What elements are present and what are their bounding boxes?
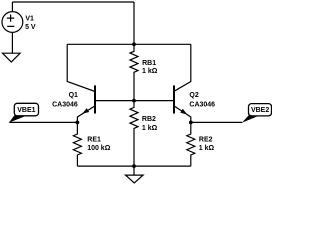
wire Q2 emitter to VBE2 (191, 121, 243, 123)
resistor RE2 (187, 122, 195, 166)
svg-text:RE2: RE2 (199, 136, 213, 143)
wire VBE1 to Q1 emitter (9, 121, 77, 123)
svg-text:5 V: 5 V (25, 24, 36, 31)
node base junction (132, 99, 136, 103)
ground under V1 (3, 53, 21, 62)
node ground junction (132, 164, 136, 168)
wire down into top bus (133, 2, 135, 44)
probe VBE1 (9, 103, 39, 122)
svg-text:1 kΩ: 1 kΩ (142, 125, 158, 132)
wire top from V1 to RB1 column (12, 1, 134, 3)
transistor Q2 (134, 44, 191, 122)
svg-text:100 kΩ: 100 kΩ (87, 145, 111, 152)
ground bottom (126, 166, 144, 183)
svg-text:V1: V1 (25, 15, 34, 22)
resistor RB2 (130, 101, 138, 167)
voltage source V1 (2, 2, 23, 53)
svg-text:CA3046: CA3046 (52, 102, 78, 109)
svg-text:VBE2: VBE2 (251, 107, 269, 114)
svg-text:1 kΩ: 1 kΩ (142, 68, 158, 75)
wire bottom bus (77, 165, 190, 167)
node Q2 emitter junction (189, 121, 193, 125)
svg-text:CA3046: CA3046 (189, 102, 215, 109)
resistor RB1 (130, 44, 138, 100)
node Q1 emitter junction (76, 121, 80, 125)
svg-text:Q2: Q2 (189, 92, 198, 99)
svg-text:Q1: Q1 (69, 92, 78, 99)
transistor Q1 (67, 44, 134, 122)
svg-text:RB1: RB1 (142, 60, 156, 67)
svg-text:1 kΩ: 1 kΩ (199, 145, 215, 152)
resistor RE1 (73, 122, 81, 166)
node junction top (132, 42, 136, 46)
wire top bus (67, 43, 191, 45)
probe VBE2 (242, 104, 272, 123)
svg-text:RE1: RE1 (87, 136, 101, 143)
svg-text:VBE1: VBE1 (17, 107, 35, 114)
svg-text:RB2: RB2 (142, 116, 156, 123)
